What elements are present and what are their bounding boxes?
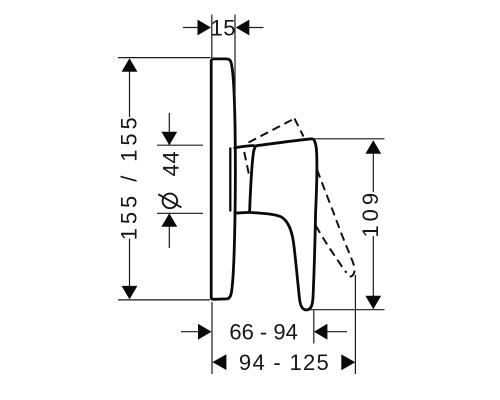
lever handle outline [249,139,317,310]
dimension line 109 upper segment [372,141,374,192]
svg-text:66 - 94: 66 - 94 [229,320,298,345]
svg-text:155 / 155: 155 / 155 [117,113,142,240]
svg-text:94 - 125: 94 - 125 [239,350,330,375]
dimension 66-94 right tail [327,331,347,333]
dashed open-position handle outer edge [317,170,355,277]
dashed open-position handle inner edge [316,226,347,273]
dimension line 155 lower segment [129,239,131,299]
diameter 44 upper line [168,113,170,145]
extension line 15 left [211,15,213,59]
diameter 44 top tick [157,144,203,146]
escutcheon plate body fill [211,59,235,299]
escutcheon plate outline [211,59,235,299]
dimension 15 left tail [183,27,199,29]
dimension line 155 upper segment [129,59,131,117]
diameter 44 lower line [168,214,170,248]
arrowhead 66-94 right [314,324,328,340]
dimension 15 right tail [248,27,264,29]
dashed open-position handle top edge [249,119,295,143]
dashed open-position handle left edge [244,152,250,179]
reference line 155 top [118,57,211,59]
arrowhead 44 down [161,132,177,146]
reference line 109 bottom [305,309,385,311]
diameter 44 bottom tick [157,212,203,214]
dimension 66-94 left tail [181,331,200,333]
svg-text:109: 109 [358,189,383,238]
label diameter symbol slash [158,194,181,207]
cartridge sleeve hidden edge line [229,148,231,212]
reference line 155 bottom [118,299,210,301]
lever handle body fill [249,139,317,310]
arrowhead 155 up [122,58,138,71]
arrowhead 15 right [236,20,250,36]
arrowhead 15 left [198,20,212,36]
svg-text:15: 15 [210,15,235,40]
arrowhead 94-125 left [212,354,226,370]
dashed open-position handle outer edge upper stub [295,119,304,137]
handle adapter top line [234,146,255,149]
extension line 66-94 right [313,311,315,344]
label diameter symbol circle [163,194,178,209]
arrowhead 66-94 left [198,324,212,340]
extension line 94-125 right [354,275,356,374]
arrowhead 109 up [365,140,381,154]
extension line 15 right [234,15,236,111]
reference line 109 top [312,138,385,140]
svg-text:44: 44 [159,151,184,176]
arrowhead 155 down [122,286,138,300]
dimension line 109 lower segment [372,236,374,309]
extension line bottom left [211,302,213,374]
arrowhead 109 down [365,296,381,310]
arrowhead 94-125 right [341,354,355,370]
arrowhead 44 up [161,213,177,227]
handle adapter bottom line [234,211,249,215]
